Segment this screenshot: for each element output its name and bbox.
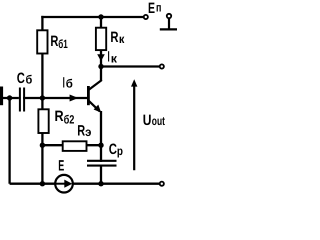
resistor Rк value label <box>110 29 125 46</box>
transistor VT base bar <box>87 86 90 105</box>
svg-text:п: п <box>156 0 161 14</box>
svg-text:I: I <box>63 74 65 91</box>
svg-text:б2: б2 <box>64 113 75 127</box>
wire collector output horizontal <box>101 65 159 67</box>
svg-text:E: E <box>148 0 155 17</box>
svg-text:б1: б1 <box>58 37 68 51</box>
capacitor Cб value label <box>17 70 33 87</box>
current Iб arrow <box>70 95 79 102</box>
wire collector branch vertical (Rк chain) <box>100 17 102 67</box>
svg-text:I: I <box>108 49 110 66</box>
svg-text:R: R <box>77 122 85 139</box>
wire base horizontal <box>0 97 88 99</box>
transistor VT emitter lead with arrow <box>89 101 102 113</box>
svg-text:б: б <box>26 73 33 87</box>
voltage Uout label <box>143 112 165 129</box>
terminal Eп (supply) <box>144 15 148 19</box>
svg-text:C: C <box>109 141 117 158</box>
svg-text:E: E <box>58 157 64 174</box>
svg-text:к: к <box>119 32 125 46</box>
svg-text:out: out <box>152 114 165 128</box>
resistor Rб2 <box>38 109 48 133</box>
wire emitter vertical down to Cр and rail <box>100 111 102 184</box>
wire bottom rail <box>10 183 160 185</box>
wire left branch vertical (Rб1/Rб2 chain) <box>41 16 43 184</box>
resistor Rб1 <box>37 30 47 53</box>
svg-text:б: б <box>66 77 73 91</box>
wire Rэ horizontal <box>42 144 101 146</box>
capacitor Cр value label <box>109 141 123 158</box>
node top rail / Rк junction <box>98 14 103 19</box>
node input junction <box>7 95 12 100</box>
terminal output bottom <box>160 182 164 186</box>
svg-text:р: р <box>117 144 123 158</box>
node Rэ/emitter junction <box>98 143 103 148</box>
svg-text:C: C <box>17 70 25 87</box>
capacitor Cр <box>87 161 117 166</box>
current Iб label <box>63 74 73 91</box>
source E (EMF source circle with arrow) <box>55 175 73 193</box>
current Iк label <box>108 49 119 66</box>
svg-text:R: R <box>110 29 118 46</box>
svg-text:R: R <box>55 108 64 125</box>
node base cross junction <box>40 95 45 100</box>
transistor VT collector lead <box>89 80 102 90</box>
node bottom rail left junction <box>40 181 45 186</box>
svg-text:э: э <box>85 125 92 139</box>
voltage Uout arrow <box>131 79 137 170</box>
node Rб2/Rэ junction <box>40 143 45 148</box>
resistor Rб1 value label <box>50 33 68 51</box>
terminal output top <box>160 64 164 68</box>
input terminal bar (left edge) <box>0 87 3 106</box>
svg-text:R: R <box>50 33 58 50</box>
capacitor Cб <box>19 88 23 112</box>
node collector junction <box>98 64 103 69</box>
resistor Rб2 value label <box>55 108 75 127</box>
wire top rail <box>41 16 143 18</box>
svg-text:U: U <box>143 112 152 129</box>
resistor Rэ <box>63 141 87 151</box>
wire input down vertical <box>8 98 10 184</box>
transistor VT collector lead vertical <box>100 67 102 81</box>
current Iк arrow <box>97 54 105 61</box>
node bottom rail Cр junction <box>98 181 103 186</box>
supply Eп label <box>148 0 161 17</box>
resistor Rэ value label <box>77 122 92 139</box>
svg-text:к: к <box>111 51 118 65</box>
resistor Rк <box>96 28 106 50</box>
terminal top-right with bar <box>160 14 177 30</box>
